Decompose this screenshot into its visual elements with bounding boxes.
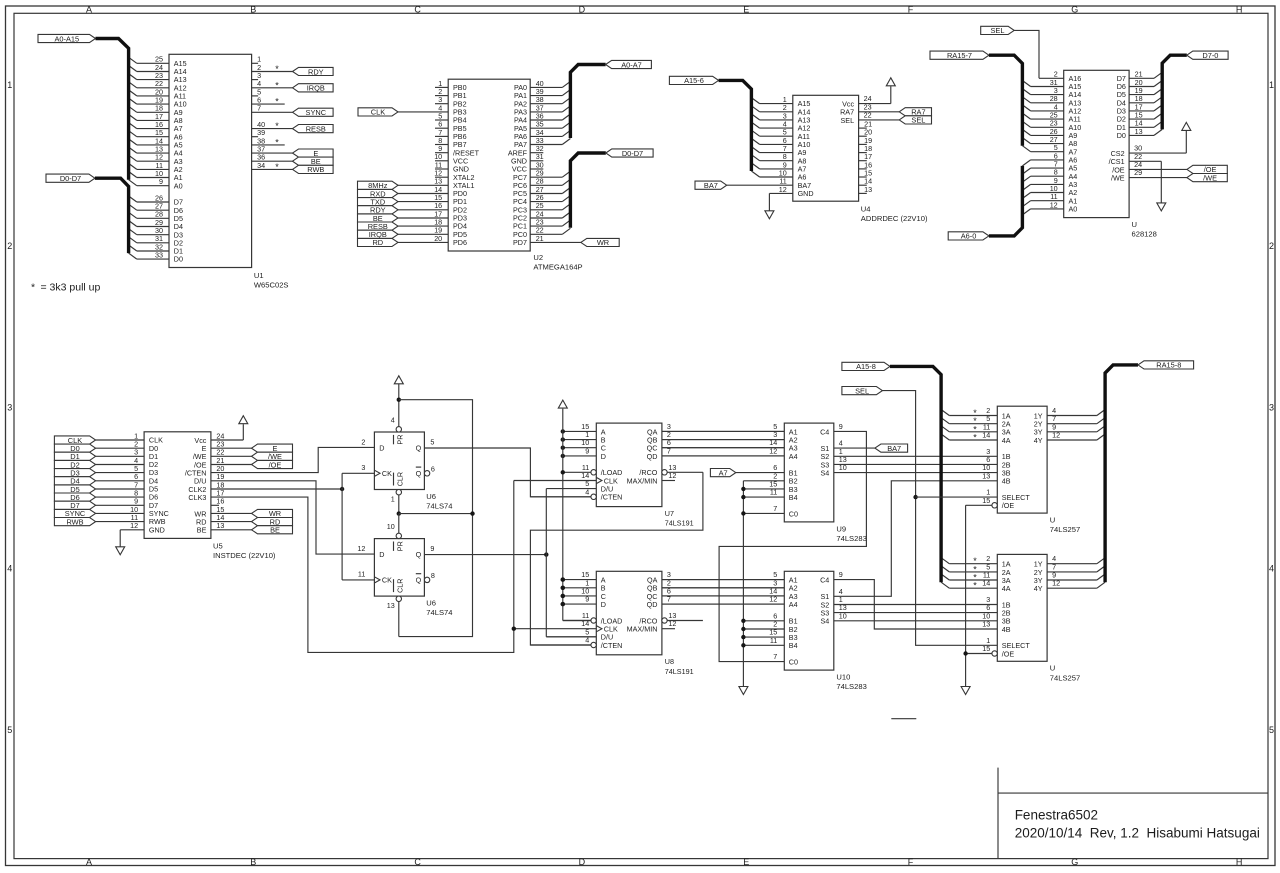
svg-text:MAX/MIN: MAX/MIN	[627, 625, 658, 634]
svg-text:13: 13	[1135, 127, 1143, 136]
svg-text:5: 5	[7, 725, 12, 735]
svg-text:13: 13	[387, 601, 395, 610]
svg-text:QD: QD	[647, 600, 658, 609]
svg-text:/CTEN: /CTEN	[601, 493, 623, 502]
svg-text:C0: C0	[789, 658, 798, 667]
svg-text:QD: QD	[647, 452, 658, 461]
svg-text:7: 7	[773, 504, 777, 513]
svg-text:12: 12	[130, 521, 138, 530]
svg-text:D: D	[579, 5, 586, 15]
svg-text:D: D	[601, 452, 606, 461]
svg-text:SEL: SEL	[855, 386, 869, 395]
svg-text:9: 9	[585, 595, 589, 604]
svg-text:7: 7	[773, 652, 777, 661]
svg-text:PR: PR	[395, 541, 404, 551]
svg-text:12: 12	[1052, 579, 1060, 588]
svg-text:*: *	[275, 137, 279, 147]
svg-text:D: D	[379, 550, 384, 559]
svg-text:F: F	[908, 5, 914, 15]
svg-text:G: G	[1071, 5, 1078, 15]
svg-text:*: *	[275, 97, 279, 107]
svg-text:*: *	[973, 433, 977, 443]
svg-text:/OE: /OE	[1002, 649, 1015, 658]
svg-text:1: 1	[1269, 80, 1274, 90]
svg-text:/WE: /WE	[1203, 173, 1217, 182]
svg-text:CLR: CLR	[395, 472, 404, 486]
svg-text:Q: Q	[416, 576, 422, 585]
svg-text:*: *	[275, 121, 279, 131]
svg-text:U4: U4	[861, 205, 871, 214]
svg-text:4: 4	[585, 487, 589, 496]
svg-text:74LS283: 74LS283	[836, 682, 866, 691]
svg-text:WR: WR	[597, 238, 609, 247]
svg-text:IRQB: IRQB	[307, 84, 325, 93]
svg-text:B: B	[250, 5, 256, 15]
svg-text:6: 6	[431, 464, 435, 473]
svg-text:BA7: BA7	[704, 181, 718, 190]
svg-text:A0: A0	[1069, 205, 1078, 214]
svg-text:U10: U10	[836, 673, 850, 682]
svg-text:7: 7	[257, 104, 261, 113]
svg-text:PD7: PD7	[513, 238, 527, 247]
svg-text:21: 21	[536, 234, 544, 243]
svg-text:U6: U6	[426, 599, 436, 608]
svg-text:74LS191: 74LS191	[665, 667, 694, 676]
svg-text:4A: 4A	[1002, 436, 1011, 445]
svg-text:A: A	[86, 5, 92, 15]
svg-text:3: 3	[1269, 402, 1274, 412]
svg-text:1: 1	[391, 495, 395, 504]
svg-text:14: 14	[982, 579, 990, 588]
svg-text:B: B	[250, 857, 256, 867]
svg-text:BE: BE	[197, 526, 207, 535]
svg-text:RWB: RWB	[66, 517, 83, 526]
svg-text:U1: U1	[254, 271, 264, 280]
svg-text:4: 4	[1269, 564, 1274, 574]
svg-text:CK: CK	[382, 469, 392, 478]
svg-text:29: 29	[1134, 168, 1142, 177]
svg-text:*: *	[973, 581, 977, 591]
svg-text:2: 2	[7, 241, 12, 251]
svg-text:INSTDEC (22V10): INSTDEC (22V10)	[213, 551, 276, 560]
svg-text:/OE: /OE	[269, 460, 282, 469]
svg-text:E: E	[743, 5, 749, 15]
svg-text:U8: U8	[665, 657, 674, 666]
svg-text:4Y: 4Y	[1034, 584, 1043, 593]
svg-text:U2: U2	[533, 253, 543, 262]
svg-text:5: 5	[1269, 725, 1274, 735]
svg-text:9: 9	[430, 544, 434, 553]
svg-text:4B: 4B	[1002, 477, 1011, 486]
svg-text:9: 9	[839, 422, 843, 431]
svg-text:628128: 628128	[1132, 230, 1157, 239]
svg-text:C: C	[414, 5, 421, 15]
svg-text:*: *	[275, 80, 279, 90]
svg-text:4A: 4A	[1002, 584, 1011, 593]
svg-text:D: D	[579, 857, 586, 867]
svg-text:SEL: SEL	[991, 26, 1005, 35]
svg-text:1: 1	[7, 80, 12, 90]
svg-text:*: *	[275, 64, 279, 74]
svg-text:A4: A4	[789, 600, 798, 609]
svg-text:U: U	[1132, 220, 1137, 229]
svg-text:A0: A0	[174, 181, 183, 190]
svg-text:C4: C4	[820, 576, 829, 585]
svg-text:U: U	[1050, 516, 1055, 525]
svg-text:74LS257: 74LS257	[1050, 525, 1080, 534]
svg-text:RA15-8: RA15-8	[1156, 361, 1181, 370]
svg-text:13: 13	[982, 620, 990, 629]
svg-text:74LS74: 74LS74	[426, 608, 452, 617]
svg-text:4: 4	[7, 564, 12, 574]
svg-text:Q: Q	[416, 550, 422, 559]
svg-text:PD6: PD6	[453, 238, 467, 247]
svg-text:U6: U6	[426, 492, 436, 501]
svg-text:A6-0: A6-0	[961, 232, 977, 241]
svg-text:/CTEN: /CTEN	[601, 641, 623, 650]
svg-text:8: 8	[431, 571, 435, 580]
svg-text:74LS283: 74LS283	[836, 534, 866, 543]
svg-text:4: 4	[391, 416, 395, 425]
svg-text:RESB: RESB	[306, 124, 326, 133]
svg-text:Q: Q	[416, 444, 422, 453]
svg-text:H: H	[1236, 857, 1243, 867]
svg-text:4B: 4B	[1002, 625, 1011, 634]
svg-text:G: G	[1071, 857, 1078, 867]
svg-text:11: 11	[358, 569, 365, 578]
svg-text:12: 12	[779, 185, 787, 194]
svg-text:RWB: RWB	[307, 165, 324, 174]
svg-text:CLK3: CLK3	[188, 493, 206, 502]
svg-text:S4: S4	[821, 469, 830, 478]
svg-text:74LS257: 74LS257	[1050, 673, 1080, 682]
svg-text:13: 13	[216, 521, 224, 530]
svg-text:Fenestra6502: Fenestra6502	[1015, 808, 1098, 823]
svg-text:W65C02S: W65C02S	[254, 281, 289, 290]
svg-text:3: 3	[7, 402, 12, 412]
svg-text:CLK: CLK	[371, 108, 385, 117]
svg-text:Q: Q	[416, 469, 422, 478]
svg-text:BE: BE	[270, 526, 280, 535]
svg-text:12: 12	[668, 471, 676, 480]
svg-text:A: A	[86, 857, 92, 867]
svg-text:MAX/MIN: MAX/MIN	[627, 476, 658, 485]
svg-text:B4: B4	[789, 493, 798, 502]
svg-text:2: 2	[1269, 241, 1274, 251]
svg-text:A0-A7: A0-A7	[621, 60, 642, 69]
svg-text:A7: A7	[719, 468, 728, 477]
svg-text:U7: U7	[665, 509, 674, 518]
svg-text:A15-8: A15-8	[856, 362, 876, 371]
svg-text:3: 3	[361, 463, 365, 472]
svg-text:D0-D7: D0-D7	[622, 149, 643, 158]
svg-text:22: 22	[864, 110, 872, 119]
svg-text:5: 5	[430, 438, 434, 447]
svg-text:BA7: BA7	[887, 444, 901, 453]
svg-text:/WE: /WE	[1111, 174, 1125, 183]
svg-text:9: 9	[585, 446, 589, 455]
svg-text:PR: PR	[395, 435, 404, 445]
svg-text:*: *	[31, 282, 35, 294]
svg-text:SEL: SEL	[841, 116, 855, 125]
svg-text:ATMEGA164P: ATMEGA164P	[533, 263, 582, 272]
svg-text:B4: B4	[789, 641, 798, 650]
svg-text:SYNC: SYNC	[306, 108, 327, 117]
svg-text:RA15-7: RA15-7	[947, 51, 972, 60]
svg-text:12: 12	[1050, 200, 1058, 209]
svg-text:U5: U5	[213, 542, 223, 551]
svg-text:D0: D0	[1117, 131, 1126, 140]
svg-text:14: 14	[982, 431, 990, 440]
svg-text:= 3k3 pull up: = 3k3 pull up	[41, 282, 101, 294]
svg-text:ADDRDEC (22V10): ADDRDEC (22V10)	[861, 214, 928, 223]
svg-text:/OE: /OE	[1002, 501, 1015, 510]
svg-text:74LS191: 74LS191	[665, 519, 694, 528]
svg-text:H: H	[1236, 5, 1243, 15]
svg-text:9: 9	[159, 177, 163, 186]
svg-text:10: 10	[387, 522, 395, 531]
svg-text:D0: D0	[174, 255, 183, 264]
svg-text:13: 13	[982, 471, 990, 480]
svg-text:CK: CK	[382, 576, 392, 585]
svg-text:CLR: CLR	[395, 579, 404, 593]
svg-text:S4: S4	[821, 617, 830, 626]
svg-text:12: 12	[668, 619, 676, 628]
svg-text:*: *	[275, 162, 279, 172]
svg-text:A0-A15: A0-A15	[54, 34, 79, 43]
svg-text:D: D	[601, 600, 606, 609]
svg-text:F: F	[908, 857, 914, 867]
svg-text:A4: A4	[789, 452, 798, 461]
svg-text:9: 9	[839, 570, 843, 579]
svg-text:12: 12	[1052, 431, 1060, 440]
svg-text:D: D	[379, 444, 384, 453]
svg-text:74LS74: 74LS74	[426, 502, 452, 511]
svg-text:34: 34	[257, 161, 265, 170]
svg-text:C0: C0	[789, 509, 798, 518]
svg-text:2: 2	[361, 438, 365, 447]
svg-text:33: 33	[155, 251, 163, 260]
svg-text:13: 13	[864, 185, 872, 194]
svg-text:GND: GND	[798, 189, 814, 198]
svg-text:RD: RD	[372, 238, 383, 247]
svg-text:SEL: SEL	[911, 116, 925, 125]
svg-text:20: 20	[434, 234, 442, 243]
svg-text:C4: C4	[820, 427, 829, 436]
svg-text:E: E	[743, 857, 749, 867]
svg-text:4Y: 4Y	[1034, 436, 1043, 445]
svg-text:C: C	[414, 857, 421, 867]
svg-text:GND: GND	[149, 525, 165, 534]
svg-text:D7-0: D7-0	[1202, 51, 1218, 60]
svg-text:12: 12	[357, 544, 365, 553]
svg-text:RDY: RDY	[308, 67, 324, 76]
svg-text:2020/10/14 Rev, 1.2 Hisabumi: 2020/10/14 Rev, 1.2 Hisabumi Hatsugai	[1015, 826, 1260, 841]
svg-text:U9: U9	[836, 524, 846, 533]
svg-text:D0-D7: D0-D7	[60, 174, 81, 183]
svg-text:A15-6: A15-6	[684, 76, 704, 85]
svg-text:U: U	[1050, 664, 1055, 673]
